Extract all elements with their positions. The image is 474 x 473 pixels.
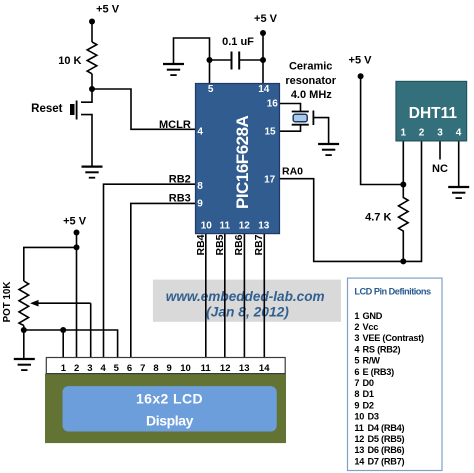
svg-text:15: 15: [264, 127, 276, 138]
wire RB5 to LCD pin12: [224, 234, 226, 358]
svg-text:RB7: RB7: [253, 234, 265, 255]
wire to LCD pin1: [62, 330, 64, 358]
wire wiper to LCD pin3: [90, 303, 92, 357]
wire +5V to LCD pin2: [76, 233, 78, 358]
wire RB4 to LCD pin11: [205, 234, 207, 358]
node cap right junction: [260, 57, 266, 63]
potentiometer POT 10K: [19, 281, 29, 326]
svg-text:7D0: 7D0: [354, 378, 373, 388]
node +5V at pot: [74, 230, 80, 236]
svg-text:1GND: 1GND: [354, 311, 382, 321]
IC U1 PIC16F628A body: [196, 84, 280, 234]
svg-text:5: 5: [114, 363, 120, 374]
pot wiper arrow: [30, 300, 91, 307]
node data junction: [400, 258, 406, 264]
LCD module green body: [45, 374, 286, 444]
svg-text:4.0 MHz: 4.0 MHz: [291, 89, 332, 101]
pushbutton Reset: [70, 101, 77, 120]
svg-text:0.1 uF: 0.1 uF: [222, 36, 254, 48]
svg-text:LCD Pin Definitions: LCD Pin Definitions: [354, 286, 431, 296]
node +5V at DHT11: [358, 73, 364, 79]
label Ceramic resonator: [285, 61, 336, 102]
svg-text:10: 10: [201, 221, 213, 232]
svg-text:PIC16F628A: PIC16F628A: [233, 115, 252, 208]
wire +5V to pull-up node: [361, 76, 404, 184]
svg-text:2Vcc: 2Vcc: [354, 322, 378, 332]
svg-text:8D1: 8D1: [354, 389, 373, 399]
svg-text:9: 9: [167, 363, 172, 374]
resistor 10K: [87, 42, 97, 74]
svg-text:3: 3: [87, 363, 92, 374]
svg-text:+5 V: +5 V: [349, 55, 373, 67]
svg-text:9D2: 9D2: [354, 400, 373, 410]
wire ground rail to LCD pin5: [24, 330, 118, 358]
svg-text:16x2 LCD: 16x2 LCD: [136, 390, 203, 406]
svg-text:17: 17: [264, 175, 276, 186]
node +5V top-left: [89, 19, 95, 25]
svg-text:4.7 K: 4.7 K: [365, 211, 391, 223]
svg-text:12: 12: [239, 221, 251, 232]
pin definition list: [354, 311, 424, 467]
svg-text:Ceramic: Ceramic: [289, 61, 332, 73]
ground at DHT11 pin4: [448, 187, 469, 198]
wire DHT11 pin3 NC stub: [439, 141, 441, 160]
wire RA0 net: [280, 179, 404, 262]
svg-text:Display: Display: [146, 413, 194, 429]
svg-text:2: 2: [74, 363, 79, 374]
svg-text:RA0: RA0: [282, 166, 303, 178]
wire RB6 to LCD pin13: [243, 234, 245, 358]
svg-text:14: 14: [258, 84, 270, 95]
wire resistor to node: [91, 74, 93, 89]
svg-text:RB3: RB3: [169, 193, 191, 205]
capacitor 0.1uF: [232, 52, 240, 70]
wire cap left lead: [210, 59, 232, 61]
svg-text:14D7 (RB7): 14D7 (RB7): [354, 456, 404, 466]
node LCD pin1 junction: [60, 327, 66, 333]
svg-text:8: 8: [197, 181, 203, 192]
svg-text:6: 6: [127, 363, 132, 374]
svg-text:16: 16: [267, 98, 279, 109]
node cap left: [207, 57, 213, 63]
LCD pin definitions box: [348, 278, 443, 470]
svg-text:3VEE (Contrast): 3VEE (Contrast): [354, 333, 424, 343]
svg-text:10D3: 10D3: [354, 412, 378, 422]
wire Vss pin5 net: [174, 38, 210, 84]
svg-text:12: 12: [220, 363, 231, 374]
svg-text:14: 14: [259, 363, 270, 374]
ceramic resonator X1: [292, 111, 314, 126]
svg-text:13: 13: [239, 363, 250, 374]
wire +5V to resistor R1: [91, 22, 93, 43]
node pot branch: [74, 244, 80, 250]
svg-text:3: 3: [437, 128, 443, 139]
svg-text:POT 10K: POT 10K: [2, 282, 13, 323]
svg-text:11: 11: [201, 363, 212, 374]
svg-text:4: 4: [197, 127, 203, 138]
resistor 4.7K: [399, 185, 409, 262]
ground under Reset switch: [82, 167, 103, 178]
svg-text:1: 1: [401, 128, 407, 139]
svg-text:NC: NC: [432, 163, 448, 175]
wire switch to ground: [81, 115, 92, 167]
svg-text:10 K: 10 K: [58, 55, 81, 67]
svg-text:8: 8: [153, 363, 158, 374]
ground under pot: [14, 359, 35, 370]
sensor U2 DHT11 body: [396, 81, 467, 140]
LCD strip pin numbers: [61, 363, 270, 374]
ground at pin 5: [163, 64, 184, 75]
svg-text:5: 5: [208, 84, 214, 95]
svg-text:13: 13: [258, 221, 270, 232]
svg-text:RB2: RB2: [169, 173, 191, 185]
wire +5V to pin 14: [262, 33, 264, 84]
wire node to switch: [81, 89, 92, 102]
wire branch to pot top: [24, 247, 77, 281]
wire DHT11 pin1: [402, 141, 404, 185]
svg-text:10: 10: [180, 363, 191, 374]
wire pot to ground: [23, 330, 25, 359]
wire cap right lead: [239, 59, 263, 61]
svg-text:MCLR: MCLR: [159, 119, 191, 131]
node pot bottom: [21, 327, 27, 333]
wire pin16 to resonator: [280, 104, 301, 112]
svg-text:+5 V: +5 V: [96, 4, 120, 16]
svg-text:(Jan 8, 2012): (Jan 8, 2012): [206, 305, 289, 320]
svg-text:4: 4: [456, 128, 462, 139]
wire DHT11 pin4 to ground: [458, 141, 460, 187]
svg-text:RB5: RB5: [214, 234, 226, 255]
wire RB2 net: [104, 184, 196, 357]
ground at resonator: [318, 144, 339, 155]
svg-text:resonator: resonator: [285, 75, 336, 87]
svg-text:DHT11: DHT11: [409, 105, 458, 122]
svg-text:7: 7: [140, 363, 145, 374]
node pull-up top: [400, 182, 406, 188]
svg-text:4: 4: [100, 363, 106, 374]
svg-text:+5 V: +5 V: [254, 13, 278, 25]
svg-text:+5 V: +5 V: [63, 216, 87, 228]
wire MCLR net: [92, 89, 196, 129]
wire resonator to ground: [313, 118, 328, 144]
wire RB7 to LCD pin14: [263, 234, 265, 358]
wire pot bottom: [23, 326, 25, 331]
wire pin15 to resonator: [280, 125, 301, 132]
svg-text:11: 11: [220, 221, 231, 232]
svg-text:13D6 (RB6): 13D6 (RB6): [354, 445, 404, 455]
watermark band: [153, 280, 341, 322]
svg-text:1: 1: [61, 363, 67, 374]
wire RB3 net: [131, 203, 196, 357]
LCD display area: [63, 386, 277, 431]
svg-text:5R/W: 5R/W: [354, 356, 380, 366]
wire DHT11 pin2 data: [403, 141, 421, 261]
svg-text:RB6: RB6: [233, 234, 245, 255]
LCD pin header strip: [46, 358, 285, 374]
svg-text:12D5 (RB5): 12D5 (RB5): [354, 434, 404, 444]
svg-text:2: 2: [419, 128, 425, 139]
svg-text:Reset: Reset: [31, 103, 62, 115]
node +5V top-center: [260, 30, 266, 36]
node MCLR junction: [89, 86, 95, 92]
svg-text:RB4: RB4: [195, 234, 207, 255]
svg-text:11D4 (RB4): 11D4 (RB4): [354, 423, 404, 433]
svg-text:9: 9: [197, 199, 203, 210]
